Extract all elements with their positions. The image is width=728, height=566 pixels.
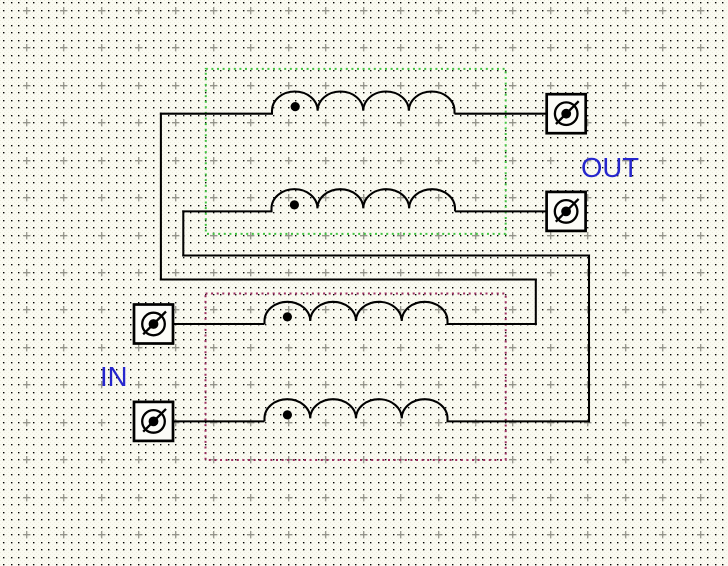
wire: L4 right lead: [448, 420, 590, 422]
phasing dot L1: [291, 102, 300, 111]
port P3 (IN top): [134, 305, 173, 344]
svg-text:IN: IN: [100, 361, 128, 392]
phasing dot L2: [290, 200, 299, 209]
wire: L4 left lead to IN2 port: [174, 420, 265, 422]
wire: drop to L3 right lead: [535, 280, 537, 325]
wire: OUT2 port to L2 right lead: [455, 210, 547, 212]
inductor L1: [272, 91, 455, 113]
port P4 (IN bottom): [134, 402, 173, 441]
phasing dot L3: [283, 312, 292, 321]
inductor L2: [271, 189, 455, 211]
port P2 (OUT bottom): [547, 192, 586, 231]
coupling group box (magenta, secondary transformer pair): [206, 294, 506, 461]
phasing dot L4: [283, 410, 292, 419]
wire: L3 left lead to IN1 port: [174, 323, 265, 325]
wire: left vertical riser: [160, 114, 162, 280]
wire: long horizontal run: [183, 254, 589, 256]
wire: short vertical riser: [182, 211, 184, 255]
inductor L3: [265, 302, 448, 324]
wire: middle horizontal run: [161, 278, 536, 280]
wire: OUT1 port to L1 right lead: [455, 113, 547, 115]
wire: L2 left lead: [183, 210, 271, 212]
inductor L4: [265, 399, 448, 421]
wire: L1 left lead: [161, 113, 272, 115]
wire: right vertical drop: [588, 256, 590, 422]
port P1 (OUT top): [547, 94, 586, 133]
wire: L3 right lead: [448, 323, 536, 325]
coupling group box (green, primary transformer pair): [206, 69, 506, 234]
svg-text:OUT: OUT: [581, 152, 639, 183]
